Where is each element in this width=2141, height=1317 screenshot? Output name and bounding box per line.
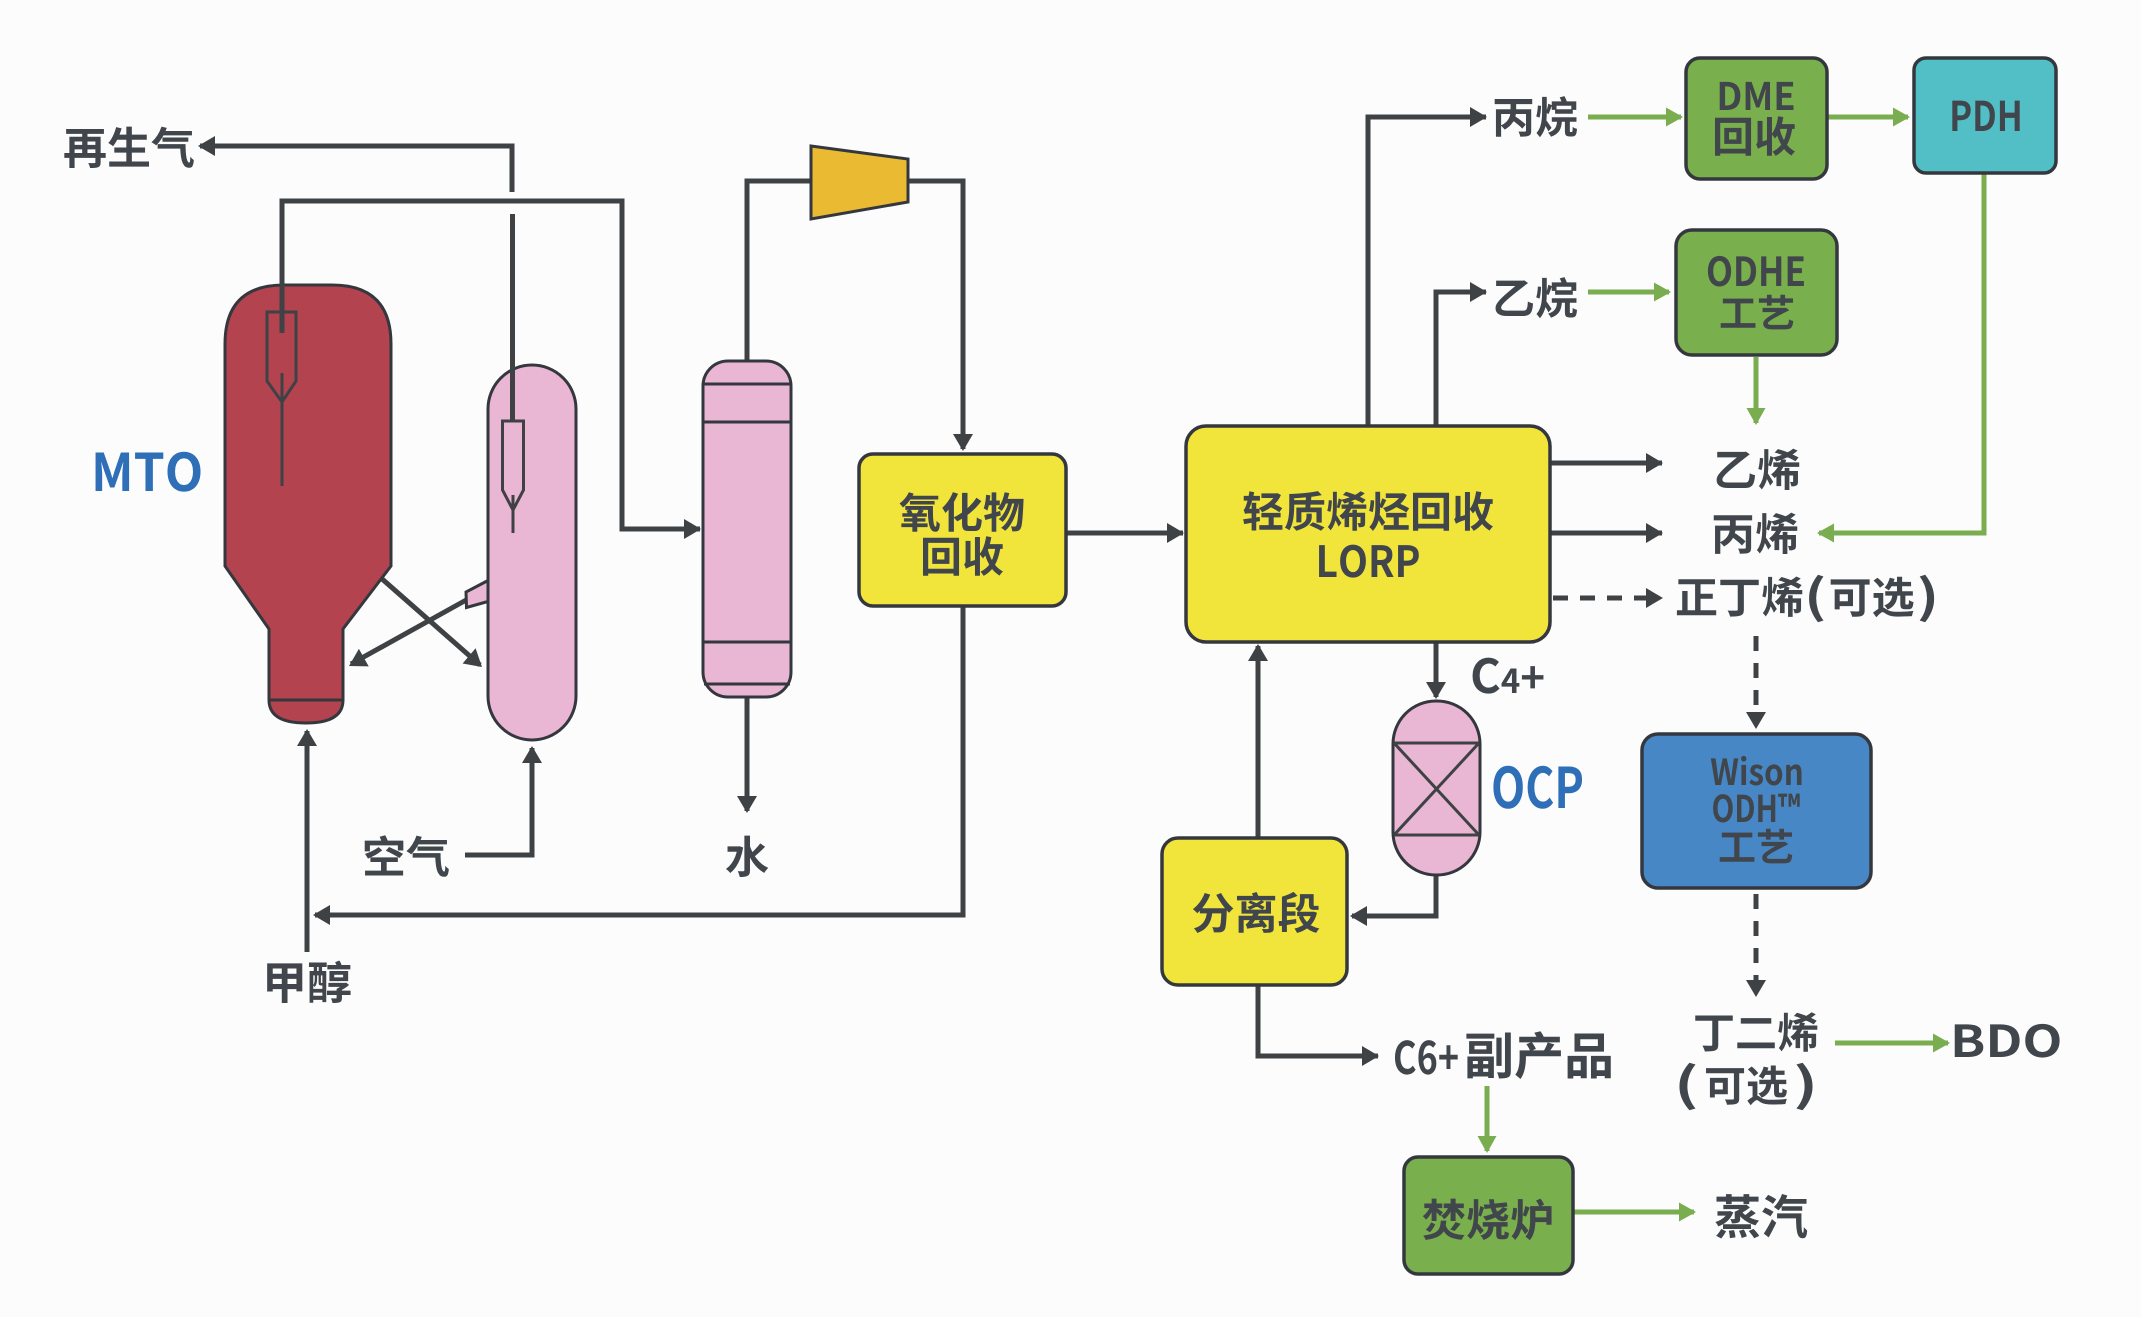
label ODHE line1 [1708, 256, 1804, 287]
wire dashed n-butene to Wison ODH [1746, 636, 1766, 729]
box ODHE process [1676, 230, 1837, 355]
label butadiene [1695, 1012, 1817, 1051]
wire methanol feed into MTO reactor [297, 729, 317, 952]
label n-butene optional [1677, 575, 1934, 623]
wire green DME recovery to PDH [1827, 108, 1910, 127]
label Wison line1 [1711, 756, 1802, 786]
label Wison line2 [1713, 794, 1800, 823]
wire propane overhead from LORP [1368, 107, 1487, 427]
label DME recovery line1 [1720, 82, 1794, 110]
wire oxygenate recovery to LORP [1066, 523, 1184, 543]
wire dashed Wison ODH to butadiene [1746, 894, 1766, 997]
label separation section [1193, 892, 1320, 933]
wire C4+ stream from LORP to OCP reactor [1426, 642, 1446, 699]
wire water outlet from quench column [737, 697, 757, 813]
label LORP line1 [1243, 491, 1493, 531]
box PDH [1914, 58, 2056, 173]
compressor symbol [811, 146, 908, 219]
wire compressor inlet from quench column top [747, 181, 812, 365]
wire ethane overhead from LORP [1436, 282, 1487, 427]
wire LORP ethylene product outlet [1550, 453, 1663, 473]
wire air feed into regenerator [465, 746, 542, 855]
box DME recovery [1686, 58, 1827, 179]
label butadiene optional [1679, 1063, 1812, 1111]
box LORP light olefin recovery [1186, 426, 1550, 642]
cyclone inside regenerator [503, 421, 524, 533]
label BDO product [1955, 1024, 2060, 1058]
label steam product [1715, 1194, 1807, 1238]
label propylene [1714, 513, 1797, 554]
box separation section [1162, 838, 1347, 985]
label MTO reactor name [96, 452, 201, 492]
wire compressor outlet to oxygenate recovery [908, 181, 973, 451]
wire separation section bottoms to C6+ byproduct [1258, 985, 1379, 1066]
wire green propane to DME recovery [1588, 108, 1683, 127]
wire green ethane to ODHE process [1588, 283, 1671, 302]
label water outlet [726, 836, 768, 877]
wire separation section recycle up to LORP [1248, 644, 1268, 838]
wire green PDH to propylene product [1817, 173, 1984, 543]
label Wison line3 [1720, 829, 1793, 864]
label air feed [365, 835, 449, 877]
label LORP line2 [1319, 545, 1419, 578]
label methanol feed [267, 961, 350, 1003]
wire OCP reactor outlet to separation section [1350, 873, 1436, 926]
label ethylene [1717, 449, 1800, 490]
label DME recovery line2 [1715, 116, 1795, 156]
box incinerator [1404, 1157, 1573, 1274]
wire spent catalyst line MTO to regenerator [381, 578, 482, 667]
wire LORP propylene product outlet [1550, 523, 1663, 543]
label ethane [1496, 277, 1577, 318]
wire dashed n-butene optional outlet [1553, 588, 1663, 608]
wire green C6+ byproduct to incinerator [1478, 1086, 1497, 1153]
box Wison ODH process [1642, 734, 1871, 888]
label ODHE line2 [1721, 295, 1794, 330]
wire regenerated catalyst line regenerator to MTO [349, 599, 468, 666]
wire MTO effluent riser to transfer line [282, 201, 701, 539]
label PDH box [1952, 101, 2019, 131]
label C6+ byproduct [1395, 1031, 1611, 1079]
wire green butadiene to BDO [1835, 1034, 1950, 1053]
label regeneration gas [64, 127, 193, 168]
label oxygenate recovery line1 [900, 492, 1024, 532]
label OCP reactor name [1493, 766, 1582, 809]
vessel MTO reactor [225, 285, 391, 723]
nozzle stub on regenerator side [466, 581, 488, 608]
vessel quench column [703, 361, 791, 697]
label C4+ stream [1473, 658, 1544, 694]
cyclone inside MTO reactor [267, 312, 296, 486]
box oxygenate recovery [859, 454, 1066, 606]
vessel regenerator [488, 365, 576, 740]
vessel OCP reactor [1393, 701, 1480, 875]
label propane [1495, 96, 1577, 137]
wire regeneration gas line from regenerator cyclone [198, 136, 513, 421]
label oxygenate recovery line2 [923, 536, 1003, 576]
wire water recycle from oxygenate recovery to methanol feed [313, 606, 963, 925]
label incinerator [1423, 1199, 1552, 1241]
wire green ODHE to ethylene product [1747, 357, 1766, 425]
wire green incinerator to steam [1573, 1203, 1696, 1222]
